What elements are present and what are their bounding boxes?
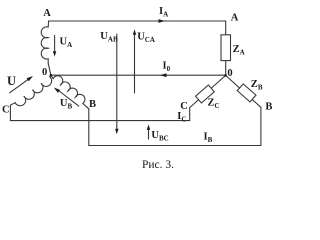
voltage arrow U_A shaft (54, 36, 56, 52)
arrowhead U_A (53, 51, 56, 56)
wire neutral 0-0' (51, 74, 226, 76)
wire line B bottom (89, 107, 261, 145)
svg-text:B: B (89, 99, 96, 110)
voltage arrow U_AB shaft (116, 34, 118, 130)
winding A (source phase A coil) (41, 21, 51, 75)
arrowhead U (27, 76, 33, 81)
svg-text:UA: UA (60, 37, 73, 50)
svg-text:IC: IC (177, 111, 186, 123)
arrowhead U_BC (147, 124, 150, 129)
svg-text:B: B (265, 102, 272, 113)
voltage arrow U_CA shaft (134, 34, 136, 93)
arrowhead U_AB (115, 129, 118, 135)
svg-text:IA: IA (159, 6, 168, 19)
svg-text:ZA: ZA (233, 44, 245, 57)
svg-text:0: 0 (42, 67, 47, 78)
svg-text:A: A (43, 8, 51, 19)
svg-text:UBC: UBC (151, 130, 168, 143)
svg-text:C: C (2, 104, 10, 115)
svg-text:0: 0 (227, 68, 232, 79)
svg-text:A: A (231, 12, 239, 23)
voltage arrow U_BC shaft (148, 129, 150, 139)
winding B (source phase B coil) (51, 75, 89, 109)
arrowhead U_CA (133, 29, 136, 35)
arrowhead I_A (159, 19, 166, 23)
wire source B drop (88, 109, 90, 146)
svg-text:I0: I0 (163, 61, 171, 74)
arrowhead I_0 (160, 73, 167, 77)
node 0' junction dot (224, 74, 227, 77)
svg-text:ZC: ZC (208, 98, 220, 111)
resistor Z_C box (196, 85, 215, 103)
wire line C bottom: from C terminal to load C corner (10, 108, 189, 121)
wire A right drop to Z_A (225, 21, 227, 35)
wire Z_A bottom to node 0' (225, 61, 227, 76)
winding C (source phase C coil) (10, 75, 51, 120)
wire load branch to Z_B (226, 75, 261, 107)
resistor Z_A box (221, 35, 231, 61)
wire load branch to Z_C (190, 75, 226, 107)
arrowhead U_B (54, 88, 60, 93)
svg-text:Рис. 3.: Рис. 3. (142, 159, 174, 171)
wire line A top (49, 20, 226, 22)
voltage arrow U_B shaft (59, 91, 79, 107)
voltage arrow U shaft (10, 79, 29, 93)
svg-text:UAB: UAB (100, 31, 118, 44)
svg-text:U: U (7, 74, 16, 88)
resistor Z_B box (237, 84, 256, 102)
svg-text:ZB: ZB (251, 79, 263, 92)
node 0 junction dot (50, 74, 53, 77)
svg-text:UCA: UCA (137, 32, 155, 45)
svg-text:IB: IB (204, 132, 213, 145)
